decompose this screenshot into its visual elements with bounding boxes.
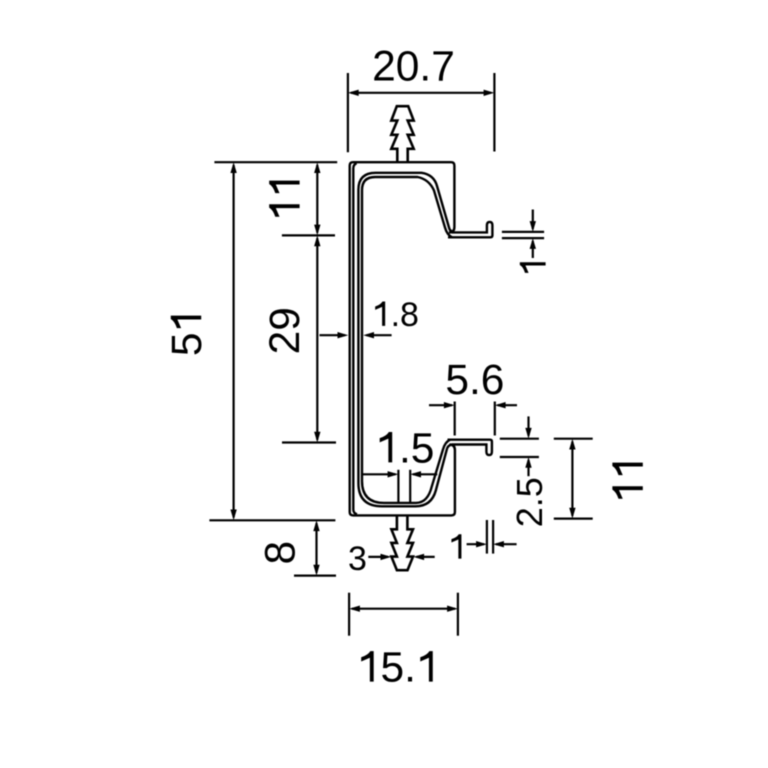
dimension 29 (middle segment, left) [282,238,336,442]
profile inner contour (cavity) main line [362,177,452,503]
svg-text:.5: .5 [399,425,434,472]
dimension 1 (lower hook tip width, bottom) [467,520,517,554]
dimension 3 (bottom fir-tree width) [368,556,434,558]
dimension 15.1 (bottom width) [349,593,458,636]
dimension 11 (lower hook to bottom, right) [554,439,593,519]
svg-text:5.: 5. [380,645,415,692]
dimension 1.5 (bottom stem width) [362,470,437,503]
profile inner contour tangent dup line [358,173,452,507]
top flange right face [449,162,455,232]
bottom hook horizontal lip and down-turned tip [448,440,492,455]
profile left wall tangent dup line [353,163,357,514]
dimension 51 (overall height, left) [233,165,235,518]
svg-text:20.7: 20.7 [372,43,455,90]
svg-text:.8: .8 [391,296,419,334]
svg-text:29: 29 [262,307,309,354]
bottom flange right face [449,445,455,513]
dimension 5.6 (lower hook length) [429,402,517,436]
dimension 11 (top segment, left) [282,165,335,235]
dimension 20.7 (top width) [348,73,495,152]
svg-text:5.6: 5.6 [445,357,504,404]
svg-text:2.5: 2.5 [509,477,550,527]
top hook horizontal lip and up-turned tip [448,222,492,237]
top fir-tree fastener [391,106,413,162]
dimension 8 (bottom offset, left) [209,520,336,575]
bottom fir-tree fastener [391,515,413,570]
svg-text:5: 5 [164,332,211,356]
dimension 1 (top hook thickness, right) [502,210,544,259]
profile outer contour left wall and top/bottom edges [214,162,455,515]
dimension 2.5 (lower hook tip height) [500,416,539,476]
svg-text:8: 8 [258,541,305,565]
dimension 1.8 (wall thickness) [320,334,392,336]
svg-text:3: 3 [348,540,367,578]
